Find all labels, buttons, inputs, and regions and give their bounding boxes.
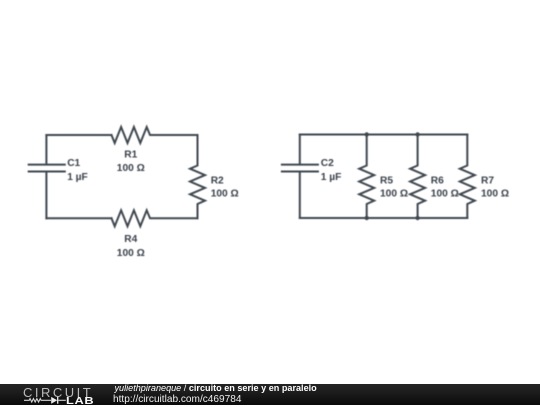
svg-text:R7: R7 xyxy=(481,176,494,187)
resistor R1 xyxy=(112,127,198,143)
node dot top R6 xyxy=(415,132,419,136)
capacitor C2 xyxy=(282,165,318,172)
svg-text:100 Ω: 100 Ω xyxy=(431,189,459,200)
svg-text:100 Ω: 100 Ω xyxy=(211,189,239,200)
svg-text:1 µF: 1 µF xyxy=(67,172,88,183)
resistor R5 xyxy=(359,135,374,219)
wire left-circuit left-bottom xyxy=(45,173,47,219)
logo CIRCUIT text xyxy=(23,385,93,400)
wire right-circuit left-top xyxy=(299,135,301,164)
node dot bottom R5 xyxy=(365,216,369,220)
node dot bottom R6 xyxy=(415,216,419,220)
svg-text:R2: R2 xyxy=(211,176,224,187)
svg-text:100 Ω: 100 Ω xyxy=(117,163,145,174)
svg-text:R5: R5 xyxy=(380,176,393,187)
capacitor C1 xyxy=(29,165,65,172)
svg-text:C2: C2 xyxy=(321,158,334,169)
svg-text:1 µF: 1 µF xyxy=(321,172,342,183)
logo resistor zigzag xyxy=(24,399,51,402)
svg-text:R1: R1 xyxy=(124,149,137,160)
logo symbol + LAB xyxy=(22,396,68,405)
svg-text:C1: C1 xyxy=(67,158,80,169)
wire right-circuit left-bottom xyxy=(299,173,301,219)
wire left-circuit top xyxy=(46,134,111,136)
wire left-circuit bottom xyxy=(46,217,111,219)
logo diode xyxy=(51,397,57,404)
wire right-circuit bottom xyxy=(300,217,468,219)
resistor R6 xyxy=(410,135,425,219)
svg-text:R4: R4 xyxy=(124,234,137,245)
svg-text:R6: R6 xyxy=(431,176,444,187)
svg-text:100 Ω: 100 Ω xyxy=(380,189,408,200)
footer bar xyxy=(0,384,540,405)
wire left-circuit left-top xyxy=(45,135,47,164)
resistor R7 xyxy=(460,135,475,219)
resistor R2 xyxy=(190,135,205,218)
resistor R4 xyxy=(112,210,198,226)
footer line 2 xyxy=(113,394,241,405)
node dot top R5 xyxy=(365,132,369,136)
svg-text:100 Ω: 100 Ω xyxy=(481,189,509,200)
footer line 1 xyxy=(115,383,317,393)
svg-text:100 Ω: 100 Ω xyxy=(117,248,145,259)
wire right-circuit top xyxy=(300,134,468,136)
